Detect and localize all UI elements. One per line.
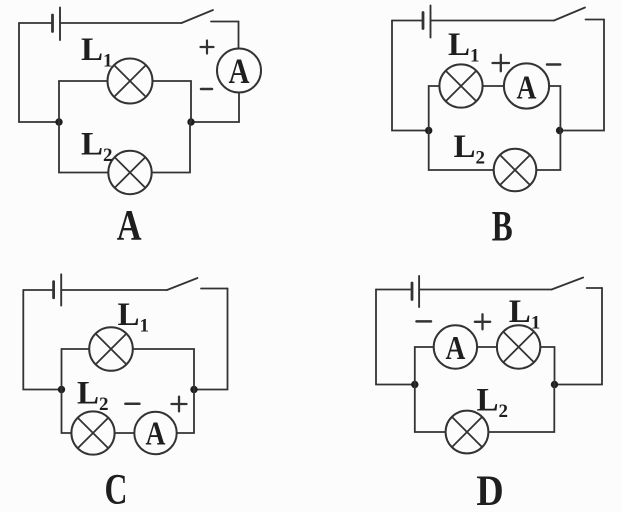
wire node down to lamp L2 circuit B [429,131,494,171]
ammeter A3 circle [134,412,176,454]
wire lamp L1 to ammeter A2 [483,85,504,87]
ammeter A2 circle [504,63,549,108]
wire lamp L2 to node circuit B [536,131,560,171]
minus sign at ammeter A2 [547,63,560,66]
lamp L2 circuit C [71,411,114,454]
battery A long plate [59,8,61,41]
wire lamp L2 to ammeter A3 [115,432,135,434]
battery D short plate [411,283,414,300]
wire lamp L1 to node circuit D [540,347,554,385]
battery A short plate [51,15,54,32]
svg-text:A: A [146,414,166,452]
wire node down to lamp L2 circuit D [415,385,446,433]
battery B long plate [430,6,432,38]
wire node up to lamp L1 circuit B [429,86,440,131]
answer label D [476,467,503,512]
switch B lever [554,8,585,21]
switch D lever [552,278,584,290]
wire lamp L1 to node circuit A [153,81,192,122]
wire left outer circuit B [392,21,429,131]
wire battery A to switch A [61,22,182,24]
wire battery D to switch D [420,289,552,291]
lamp L2 circuit B [494,149,537,192]
minus sign at ammeter A4 [417,320,432,323]
wire node to lamp L1 circuit A [59,81,108,122]
wire top-left to battery A [19,22,51,24]
wire ammeter A3 to node circuit C [177,390,194,434]
switch C lever [167,278,198,290]
plus sign at ammeter A4 [475,314,490,329]
op-amp none: ammeter A1 circle [217,49,261,93]
svg-text:B: B [492,203,513,251]
svg-text:A: A [517,68,537,106]
wire node down to lamp L2 circuit C [62,390,72,434]
wire top-left to battery B [392,20,422,22]
wire left outer circuit A [19,23,59,122]
node dot right circuit C [190,386,197,393]
node dot right circuit D [551,381,558,388]
plus sign at ammeter A1 [201,41,214,54]
node dot left circuit C [58,386,65,393]
battery C long plate [60,274,62,305]
svg-text:D: D [476,467,503,512]
battery D long plate [418,276,420,307]
minus sign at ammeter A3 [125,403,139,406]
node dot right circuit B [556,127,563,134]
minus sign at ammeter A1 [201,88,212,91]
lamp L2 circuit D [446,411,489,454]
wire lamp L2 to node circuit A [152,122,190,173]
wire lamp L1 to node circuit C [133,349,194,390]
node dot right circuit A [187,118,194,125]
switch B contact wire [586,19,605,21]
ammeter A2 letter [517,68,537,106]
wire node up to ammeter A4 [415,347,434,385]
lamp L1 circuit A [108,59,153,104]
plus sign at ammeter A3 [172,397,187,412]
svg-text:A: A [445,328,465,366]
wire switch A down to ammeter A [238,22,240,49]
wire top-left to battery D [376,289,410,291]
node dot left circuit A [55,118,62,125]
svg-text:C: C [105,466,128,512]
wire left outer circuit D [376,290,415,385]
battery C short plate [52,282,55,298]
wire ammeter A4 to lamp L1 circuit D [477,346,497,348]
wire node up to lamp L1 circuit C [62,349,90,390]
switch D contact wire [587,287,602,289]
lamp L1 circuit D [497,325,540,368]
wire right outer circuit C [194,289,228,390]
switch A contact wire [211,21,239,23]
node dot left circuit D [411,381,418,388]
answer label A [117,202,142,249]
ammeter A1 letter [228,52,249,92]
wire battery B to switch B [432,20,555,22]
wire right outer circuit D [555,288,603,385]
svg-text:A: A [228,52,249,92]
wire node to lamp L2 circuit A [59,122,108,173]
wire ammeter A2 to node circuit B [549,86,560,131]
wire lamp L2 to node circuit D [488,385,554,433]
wire left outer circuit C [23,290,61,390]
lamp L2 circuit A [108,151,151,194]
wire right outer circuit B [560,20,604,131]
lamp L1 circuit C [89,327,133,371]
ammeter A3 letter [146,414,166,452]
node dot left circuit B [425,127,432,134]
answer label B [492,203,513,251]
lamp L1 circuit B [439,64,482,107]
svg-text:A: A [117,202,142,249]
answer label C [105,466,128,512]
wire ammeter A1 bottom to node [191,93,239,123]
battery B short plate [422,13,425,29]
wire battery C to switch C [62,289,167,291]
plus sign at ammeter A2 [493,55,510,71]
wire top-left to battery C [23,289,52,291]
ammeter A4 circle [434,325,477,368]
switch A lever [182,10,214,23]
switch C contact wire [201,288,228,290]
ammeter A4 letter [445,328,465,366]
